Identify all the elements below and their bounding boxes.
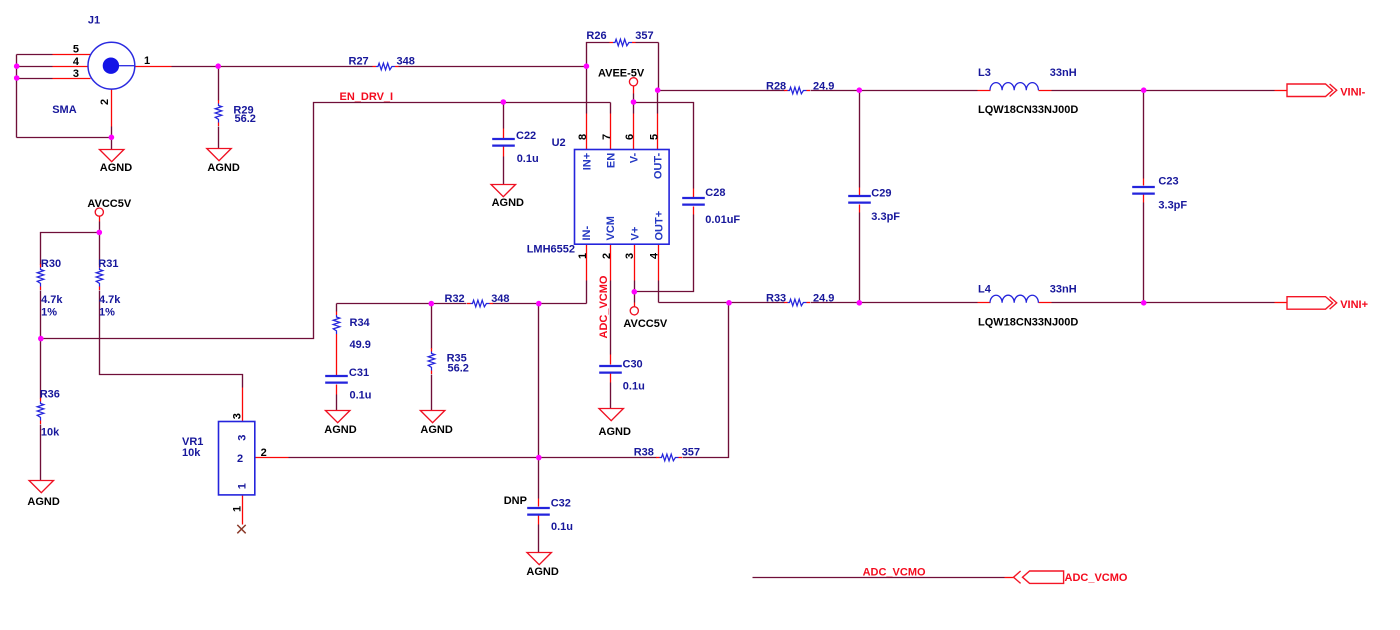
svg-text:7: 7	[601, 134, 613, 140]
wire U2 pin8 stub	[586, 67, 588, 114]
ground AGND R29	[207, 149, 231, 161]
svg-text:OUT-: OUT-	[653, 152, 665, 179]
node R29 tap	[215, 63, 221, 69]
svg-text:LQW18CN33NJ00D: LQW18CN33NJ00D	[978, 316, 1078, 328]
svg-text:AVCC5V: AVCC5V	[87, 198, 131, 210]
wire AVCC5V left branch	[41, 222, 100, 339]
svg-text:4: 4	[648, 252, 660, 259]
pin L4 red stubs	[978, 302, 1052, 304]
ground AGND J1	[100, 150, 124, 162]
node V+ junction	[632, 289, 638, 295]
wire J1 pin5 segment	[17, 54, 53, 56]
svg-text:3.3pF: 3.3pF	[1158, 199, 1187, 211]
node J1 gnd	[109, 135, 115, 141]
wire C29 branch	[859, 91, 861, 303]
svg-text:AGND: AGND	[207, 162, 239, 174]
svg-text:0.1u: 0.1u	[517, 153, 539, 165]
svg-text:33nH: 33nH	[1050, 283, 1077, 295]
svg-text:24.9: 24.9	[813, 292, 834, 304]
pin VINI+ red stub	[1275, 302, 1287, 304]
wire C23 branch	[1143, 91, 1145, 303]
node C29 bottom	[857, 300, 863, 306]
node IN+ junction	[584, 63, 590, 69]
node J1 pin4 bus	[14, 63, 20, 69]
svg-text:AGND: AGND	[27, 496, 59, 508]
pin VR1 pin2 red	[255, 457, 289, 459]
connector J1 SMA body	[88, 42, 135, 89]
svg-text:33nH: 33nH	[1050, 67, 1077, 79]
svg-text:5: 5	[73, 44, 79, 56]
pin U2 pin2 red	[610, 245, 612, 281]
node OUT- junction	[655, 87, 661, 93]
pin U2 pin7 red	[610, 114, 612, 150]
wire C31 to AGND	[336, 395, 338, 411]
svg-text:1: 1	[231, 506, 243, 512]
svg-text:AGND: AGND	[492, 197, 524, 209]
svg-text:1%: 1%	[99, 307, 115, 319]
svg-text:C29: C29	[871, 187, 891, 199]
pin C32 red stubs	[538, 499, 540, 525]
node IN- C32 tap	[536, 301, 542, 307]
svg-text:4.7k: 4.7k	[99, 294, 121, 306]
svg-text:AVCC5V: AVCC5V	[623, 318, 667, 330]
svg-text:24.9: 24.9	[813, 80, 834, 92]
svg-text:56.2: 56.2	[235, 113, 256, 125]
pin C22 red stubs	[503, 129, 505, 157]
node C22 tap	[501, 99, 507, 105]
svg-text:348: 348	[491, 293, 509, 305]
port VINI-	[1287, 84, 1337, 97]
wire OUT- rail to VINI-	[658, 90, 1275, 92]
port VINI+	[1287, 297, 1337, 310]
svg-text:ADC_VCMO: ADC_VCMO	[1065, 572, 1128, 584]
node R35 tap	[429, 301, 435, 307]
node R30 R36 junction	[38, 336, 44, 342]
wire V- to C28 top	[634, 103, 694, 189]
svg-text:L4: L4	[978, 283, 992, 295]
wire R26 feedback loop	[587, 43, 659, 91]
svg-text:ADC_VCMO: ADC_VCMO	[863, 566, 926, 578]
capacitor C32	[527, 508, 550, 515]
wire IN- node down to R38 rail	[538, 304, 540, 458]
node AVCC5V left	[97, 230, 103, 236]
wire U2 pin3 stub	[634, 281, 636, 292]
wire U2 pin2 VCM down to C30	[610, 281, 612, 355]
power AVCC5V left symbol	[95, 208, 103, 216]
resistor R33	[784, 299, 810, 306]
svg-text:DNP: DNP	[504, 495, 527, 507]
node J1 pin3 bus	[14, 75, 20, 81]
resistor R36	[37, 398, 44, 424]
svg-text:10k: 10k	[41, 426, 60, 438]
svg-text:1%: 1%	[41, 307, 57, 319]
wire VR1 pin2 to R38 rail	[289, 303, 729, 458]
pin U2 pin5 red	[657, 114, 659, 150]
resistor R29	[215, 100, 222, 126]
pin J1 pin1 red	[135, 66, 172, 68]
wire ADC_VCMO bottom	[753, 577, 1005, 579]
power AVEE-5V symbol	[629, 78, 637, 86]
svg-text:LQW18CN33NJ00D: LQW18CN33NJ00D	[978, 104, 1078, 116]
wire IN- rail	[337, 303, 587, 305]
svg-text:AGND: AGND	[324, 424, 356, 436]
svg-text:AGND: AGND	[100, 162, 132, 174]
svg-text:IN+: IN+	[581, 153, 593, 170]
capacitor C23	[1132, 187, 1155, 194]
resistor R30	[37, 264, 44, 290]
svg-text:1: 1	[236, 483, 248, 489]
wire J1 pin4 segment	[17, 66, 53, 68]
resistor R27	[373, 63, 399, 70]
pin U2 pin8 red	[586, 114, 588, 150]
svg-text:R33: R33	[766, 292, 786, 304]
wire R36 leg	[40, 339, 42, 481]
wire C22 branch	[503, 103, 505, 185]
ground AGND R35	[420, 411, 444, 423]
svg-text:R30: R30	[41, 258, 61, 270]
capacitor C28	[682, 198, 705, 205]
wire C32 branch	[538, 458, 540, 553]
svg-text:L3: L3	[978, 67, 991, 79]
pin AVCC5V left red stub	[99, 217, 101, 222]
inductor L4	[990, 295, 1038, 303]
svg-text:C30: C30	[623, 358, 643, 370]
resistor R28	[784, 87, 810, 94]
svg-text:VCM: VCM	[605, 216, 617, 240]
wire J1 pin3 segment	[17, 78, 53, 80]
pin U2 pin1 red	[586, 245, 588, 281]
wire U2 pin6 AVEE stub	[633, 94, 635, 114]
wire U2 pin1 stub	[586, 281, 588, 304]
wire J1 ground bottom	[17, 127, 112, 150]
svg-text:2: 2	[601, 253, 613, 259]
pin C31 red lead	[336, 338, 338, 376]
svg-text:357: 357	[682, 447, 700, 459]
svg-text:C22: C22	[516, 130, 536, 142]
svg-text:8: 8	[577, 134, 589, 140]
pin J1 pin2 red	[111, 90, 113, 127]
svg-text:3: 3	[73, 68, 79, 80]
pin L3 red stubs	[978, 90, 1052, 92]
wire EN_DRV_I net	[41, 103, 611, 339]
svg-text:VINI-: VINI-	[1340, 86, 1365, 98]
svg-text:3: 3	[236, 435, 248, 441]
svg-text:U2: U2	[552, 137, 566, 149]
svg-text:SMA: SMA	[52, 104, 76, 116]
resistor R32	[467, 300, 493, 307]
svg-text:OUT+: OUT+	[654, 211, 666, 241]
svg-text:VR1: VR1	[182, 436, 203, 448]
svg-text:R32: R32	[445, 293, 465, 305]
svg-text:4.7k: 4.7k	[41, 294, 63, 306]
pin J1 pin4 red	[53, 66, 89, 68]
capacitor C29	[848, 196, 871, 203]
inductor L3	[990, 83, 1038, 91]
capacitor C31	[325, 376, 348, 383]
svg-text:49.9: 49.9	[350, 339, 371, 351]
wire R29 branch	[218, 67, 220, 149]
wire U2 pin4 down	[658, 281, 660, 303]
svg-text:C31: C31	[349, 367, 369, 379]
resistor R34	[333, 312, 340, 338]
svg-text:3: 3	[624, 253, 636, 259]
svg-text:C28: C28	[705, 187, 725, 199]
svg-text:1: 1	[144, 55, 150, 67]
svg-text:0.1u: 0.1u	[623, 381, 645, 393]
wire R34 top stub	[336, 304, 338, 312]
svg-text:EN: EN	[605, 153, 617, 168]
svg-text:AGND: AGND	[599, 426, 631, 438]
ground AGND C32	[527, 553, 551, 565]
svg-text:ADC_VCMO: ADC_VCMO	[598, 275, 610, 338]
resistor R35	[428, 348, 435, 374]
svg-text:2: 2	[99, 99, 111, 105]
svg-text:R34: R34	[350, 317, 371, 329]
svg-text:V-: V-	[629, 152, 641, 163]
node V- junction	[631, 99, 637, 105]
pin ADC_VCMO red stub	[1005, 577, 1014, 579]
svg-text:AVEE-5V: AVEE-5V	[598, 67, 645, 79]
wire OUT+ rail to VINI+	[659, 302, 1275, 304]
ground AGND C30	[599, 409, 623, 421]
wire J1 pin1 to R27 rail	[172, 66, 587, 68]
svg-text:IN-: IN-	[581, 226, 593, 241]
node C23 bottom	[1141, 300, 1147, 306]
resistor R26	[610, 39, 636, 46]
pin C23 red stubs	[1143, 179, 1145, 203]
svg-text:357: 357	[635, 30, 653, 42]
svg-text:R26: R26	[586, 30, 606, 42]
pin C31 lower stub	[336, 385, 338, 395]
pin C30 red stubs	[610, 355, 612, 383]
pin VINI- red stub	[1275, 90, 1287, 92]
svg-text:AGND: AGND	[526, 566, 558, 578]
wire C28 bottom to V+	[635, 215, 694, 292]
svg-text:C23: C23	[1158, 175, 1178, 187]
svg-text:V+: V+	[629, 227, 641, 241]
pin C28 red stubs	[693, 189, 695, 215]
svg-text:VINI+: VINI+	[1340, 299, 1368, 311]
svg-text:348: 348	[397, 56, 415, 68]
svg-text:R38: R38	[634, 447, 654, 459]
pin VR1 pin3 red	[242, 388, 244, 422]
svg-text:2: 2	[261, 447, 267, 459]
resistor R38	[656, 454, 682, 461]
capacitor C30	[599, 366, 622, 373]
pin U2 pin6 red	[633, 86, 635, 150]
svg-text:3.3pF: 3.3pF	[871, 211, 900, 223]
svg-text:R36: R36	[40, 389, 60, 401]
svg-text:2: 2	[237, 453, 243, 465]
node OUT+ R38 junction	[726, 300, 732, 306]
wire R35 branch	[431, 304, 433, 411]
svg-text:0.1u: 0.1u	[551, 521, 573, 533]
svg-text:C32: C32	[551, 498, 571, 510]
svg-text:4: 4	[73, 56, 80, 68]
svg-text:J1: J1	[88, 15, 100, 27]
svg-text:R28: R28	[766, 80, 786, 92]
svg-text:LMH6552: LMH6552	[527, 244, 575, 256]
svg-text:5: 5	[648, 134, 660, 140]
wire C30 to AGND	[610, 383, 612, 409]
wire R31 leg	[100, 233, 243, 388]
node R38 C32 junction	[536, 455, 542, 461]
power AVCC5V mid symbol	[630, 307, 638, 315]
svg-text:3: 3	[231, 413, 243, 419]
pin J1 pin3 red	[53, 78, 91, 80]
svg-text:1: 1	[577, 253, 589, 259]
svg-text:R27: R27	[349, 56, 369, 68]
pin C29 red stubs	[859, 188, 861, 213]
capacitor C22	[492, 139, 515, 146]
wire J1 left bus vertical	[16, 55, 18, 138]
potentiometer VR1 body	[219, 422, 255, 495]
wire AVCC5V mid stub	[634, 292, 636, 303]
port ADC_VCMO off-page	[1014, 571, 1064, 583]
pin VR1 pin1 red	[242, 495, 244, 525]
resistor R31	[96, 264, 103, 290]
ground AGND C22	[491, 185, 515, 197]
node C23 top	[1141, 87, 1147, 93]
svg-text:AGND: AGND	[420, 424, 452, 436]
svg-text:56.2: 56.2	[448, 363, 469, 375]
svg-text:0.01uF: 0.01uF	[705, 214, 740, 226]
svg-text:6: 6	[624, 134, 636, 140]
op-amp U2 body	[575, 150, 670, 245]
svg-text:10k: 10k	[182, 447, 201, 459]
pin U2 pin3 red	[634, 245, 636, 307]
node C29 top	[857, 87, 863, 93]
svg-text:R31: R31	[98, 258, 118, 270]
wire U2 pin5 stub	[657, 91, 659, 114]
wire U2 pin7 stub	[610, 103, 612, 114]
pin U2 pin4 red	[658, 245, 660, 281]
ground AGND C31	[326, 411, 350, 423]
pin J1 pin5 red	[53, 54, 91, 56]
svg-text:EN_DRV_I: EN_DRV_I	[340, 91, 394, 103]
no-connect X at VR1 pin1	[237, 525, 245, 533]
ground AGND R36	[29, 481, 53, 493]
svg-text:0.1u: 0.1u	[350, 389, 372, 401]
